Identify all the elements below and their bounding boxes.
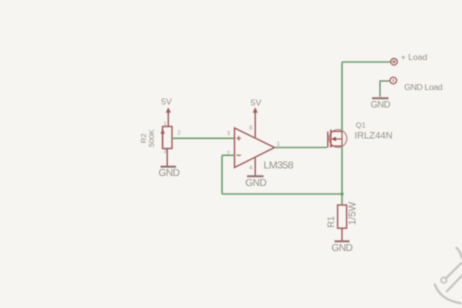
wire to + Load pad [342, 61, 391, 63]
svg-text:500K: 500K [147, 128, 156, 147]
wire feedback: bottom run [222, 193, 342, 195]
pad + Load [391, 52, 428, 65]
svg-text:IRLZ44N: IRLZ44N [355, 131, 393, 142]
svg-text:+ Load: + Load [401, 52, 428, 62]
ground (load) [371, 98, 391, 109]
svg-text:5V: 5V [161, 96, 172, 106]
wire pad GND Load to ground [380, 81, 390, 97]
wire pot bottom to ground [166, 149, 168, 167]
svg-text:2: 2 [178, 131, 181, 137]
resistor R1 [326, 201, 358, 228]
transistor Q1 IRLZ44N [328, 120, 393, 147]
svg-text:1: 1 [277, 142, 280, 148]
svg-text:R1: R1 [326, 216, 336, 228]
svg-text:GND Load: GND Load [404, 82, 443, 92]
wire MOSFET drain up [341, 62, 343, 131]
wire feedback: down [221, 155, 223, 194]
supply 5V (op-amp) [251, 97, 262, 138]
ground (R1) [331, 241, 352, 254]
svg-text:4: 4 [249, 166, 252, 172]
watermark logo bottom right [435, 248, 462, 303]
wire R1 to ground [341, 228, 343, 241]
wire pot wiper to op-amp pin 3 [172, 137, 235, 139]
svg-text:1: 1 [164, 122, 167, 128]
wire feedback: pin2 left [222, 154, 235, 156]
wire op-amp output to MOSFET gate [275, 147, 328, 149]
wire MOSFET source down to R1 [341, 146, 343, 205]
svg-text:GND: GND [158, 168, 179, 179]
pad GND Load [390, 77, 443, 92]
svg-text:GND: GND [331, 243, 352, 254]
svg-text:8: 8 [249, 126, 252, 132]
ground (op-amp) [245, 176, 266, 189]
svg-text:GND: GND [371, 100, 391, 110]
svg-text:5V: 5V [251, 97, 262, 107]
svg-text:Q1: Q1 [356, 120, 366, 129]
ground (pot) [158, 167, 179, 180]
svg-text:LM358: LM358 [264, 160, 294, 172]
op-amp U1 LM358 [227, 126, 294, 177]
supply 5V (pot branch) [161, 96, 172, 126]
svg-text:3: 3 [227, 131, 230, 137]
svg-text:3: 3 [164, 149, 167, 155]
potentiometer R2 500K [139, 122, 181, 156]
svg-text:1/5W: 1/5W [347, 201, 358, 225]
svg-text:GND: GND [245, 178, 266, 189]
junction node [340, 192, 343, 195]
